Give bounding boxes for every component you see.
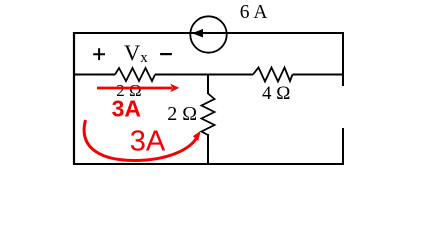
svg-text:3A: 3A — [130, 126, 166, 158]
wire left rail — [73, 32, 75, 165]
annotation red mesh arc arrowhead — [193, 131, 201, 141]
current source arrow (points left) — [192, 29, 203, 38]
annotation red mesh arc 3A — [84, 120, 197, 161]
wire top (node a to current source to right rail) — [74, 32, 343, 34]
svg-text:4 Ω: 4 Ω — [262, 83, 290, 104]
annotation red current arrow 3A through 2 ohm — [97, 87, 172, 90]
wire middle branch lower — [207, 134, 209, 165]
wire middle horizontal left segment — [74, 74, 115, 76]
label minus sign of Vx — [160, 53, 172, 55]
svg-text:3A: 3A — [112, 96, 141, 122]
current source I1 circle — [190, 16, 226, 52]
resistor 2 ohm vertical — [202, 94, 215, 136]
wire middle branch upper — [207, 75, 209, 95]
resistor 4 ohm — [253, 68, 293, 82]
label plus sign of Vx — [93, 48, 105, 60]
resistor 2 ohm horizontal — [115, 68, 155, 81]
wire right stub lower — [342, 128, 344, 165]
svg-text:2 Ω: 2 Ω — [167, 103, 197, 125]
svg-text:6 A: 6 A — [240, 2, 268, 23]
wire bottom — [73, 163, 343, 165]
wire right rail upper — [342, 32, 344, 86]
wire middle horizontal right segment — [293, 74, 344, 76]
wire middle horizontal center segment — [155, 74, 253, 76]
svg-text:Vx: Vx — [124, 40, 148, 66]
